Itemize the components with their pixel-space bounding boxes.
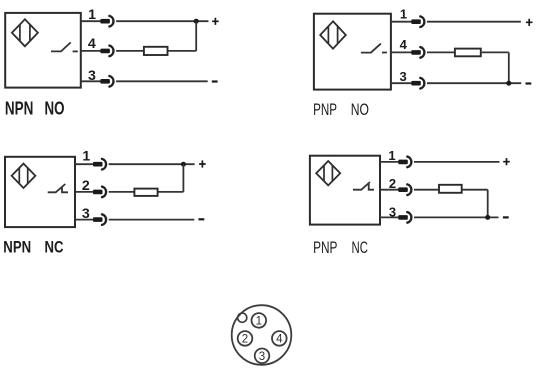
wire pin 4 lead (PNP NO) <box>391 51 412 53</box>
wire node up to + rail (NPN NO) <box>195 21 197 51</box>
svg-text:PNP: PNP <box>313 100 337 119</box>
NC switch contact (PNP NC) <box>353 182 374 190</box>
connector contact pin 3 (PNP NO) <box>411 81 421 86</box>
NC switch contact (NPN NC) <box>48 184 68 192</box>
wire pin 2 lead (PNP NC) <box>380 189 399 191</box>
svg-text:1: 1 <box>82 148 90 164</box>
+ terminal (PNP NC) <box>503 158 510 165</box>
+ terminal (PNP NO) <box>526 19 533 26</box>
svg-text:3: 3 <box>259 351 265 363</box>
connector contact pin 4 (PNP NO) <box>411 50 421 55</box>
wire pin 3 lead (PNP NO) <box>391 82 412 84</box>
connector contact pin 2 (PNP NC) <box>398 187 408 192</box>
wire pin 2 to load (NPN NC) <box>109 191 134 193</box>
- terminal (NPN NO) <box>212 80 218 82</box>
connector contact pin 1 (NPN NC) <box>93 162 103 167</box>
wire pin 2 to load (PNP NC) <box>414 189 438 191</box>
connector contact pin 1 (PNP NO) <box>411 19 421 24</box>
connector contact pin 3 (PNP NC) <box>398 215 408 220</box>
wire pin 3 to - (NPN NO) <box>116 80 208 82</box>
load resistor (NPN NC) <box>134 189 157 196</box>
- terminal (PNP NC) <box>503 216 509 218</box>
sensor box (NPN NO) <box>5 13 81 88</box>
+ terminal (NPN NC) <box>199 160 206 167</box>
wire load to corner (PNP NC) <box>463 189 488 191</box>
wire pin 1 to + (NPN NO) <box>116 20 208 22</box>
wire pin 4 to load (NPN NO) <box>116 50 143 52</box>
wire pin 1 to + (PNP NO) <box>427 21 521 23</box>
svg-text:2: 2 <box>242 334 248 346</box>
connector contact pin 3 (NPN NC) <box>93 217 103 222</box>
junction dot node + (NPN NC) <box>181 162 186 167</box>
proximity sensor symbol (PNP NC) <box>316 161 340 185</box>
svg-text:4: 4 <box>276 334 283 346</box>
proximity sensor symbol (PNP NO) <box>320 21 346 48</box>
junction dot node - (PNP NC) <box>485 215 490 220</box>
svg-text:3: 3 <box>399 69 406 84</box>
wire pin 3 to - (PNP NO) <box>427 82 521 84</box>
sensor box (NPN NC) <box>5 157 75 227</box>
connector contact pin 1 (PNP NC) <box>398 160 408 165</box>
wire corner down to - rail (PNP NC) <box>487 190 489 218</box>
NO switch contact (PNP NO) <box>361 44 381 53</box>
wire pin 3 to - (PNP NC) <box>414 216 499 218</box>
wire pin 3 lead (NPN NO) <box>81 80 101 82</box>
wire pin 3 lead (NPN NC) <box>75 219 94 221</box>
svg-text:1: 1 <box>400 7 407 22</box>
sensor box (PNP NC) <box>310 156 380 225</box>
wire pin 1 lead (PNP NO) <box>391 21 412 23</box>
wire pin 1 lead (PNP NC) <box>380 161 399 163</box>
connector contact pin 1 (NPN NO) <box>100 19 110 24</box>
wire pin 1 lead (NPN NC) <box>75 163 94 165</box>
wire pin 1 to + (PNP NC) <box>414 161 500 163</box>
connector pin 4 <box>272 331 287 346</box>
connector pin 1 <box>251 313 266 328</box>
connector contact pin 4 (NPN NO) <box>100 49 110 54</box>
wire pin 3 to - (NPN NC) <box>109 219 195 221</box>
wire corner down to - rail (PNP NO) <box>508 52 510 83</box>
NO switch contact (NPN NO) <box>51 42 71 51</box>
proximity sensor symbol (NPN NO) <box>12 19 38 46</box>
svg-text:1: 1 <box>388 148 395 163</box>
junction dot node - (PNP NO) <box>506 81 511 86</box>
svg-text:PNP: PNP <box>313 238 337 257</box>
svg-text:NPN: NPN <box>3 238 31 257</box>
- terminal (PNP NO) <box>526 82 532 84</box>
wire node up to + rail (NPN NC) <box>182 164 184 192</box>
wire pin 2 lead (NPN NC) <box>75 191 94 193</box>
load resistor (PNP NC) <box>439 185 462 193</box>
proximity sensor symbol (NPN NC) <box>12 164 36 188</box>
wire pin 1 to + (NPN NC) <box>109 163 195 165</box>
- terminal (NPN NC) <box>199 218 205 220</box>
svg-text:1: 1 <box>256 316 262 328</box>
load resistor (NPN NO) <box>144 47 168 55</box>
wire pin 1 lead (NPN NO) <box>81 20 101 22</box>
svg-text:NO: NO <box>351 100 369 119</box>
wire pin 4 lead (NPN NO) <box>81 50 101 52</box>
sensor box (PNP NO) <box>314 14 391 90</box>
svg-text:NO: NO <box>45 99 65 119</box>
svg-text:NC: NC <box>352 238 368 257</box>
connector contact pin 2 (NPN NC) <box>93 190 103 195</box>
wire pin 4 to load (PNP NO) <box>427 51 455 53</box>
svg-text:NC: NC <box>45 238 64 257</box>
load resistor (PNP NO) <box>455 49 481 57</box>
svg-text:4: 4 <box>400 37 408 52</box>
keying notch <box>238 313 247 322</box>
connector body circle <box>232 305 292 365</box>
svg-text:4: 4 <box>88 36 96 52</box>
connector contact pin 3 (NPN NO) <box>100 79 110 84</box>
junction dot node + (NPN NO) <box>194 19 199 24</box>
wire pin 3 lead (PNP NC) <box>380 216 399 218</box>
connector pin 2 <box>238 331 253 346</box>
wire load to node (NPN NC) <box>159 191 184 193</box>
+ terminal (NPN NO) <box>212 18 219 25</box>
svg-text:2: 2 <box>389 176 396 191</box>
wire load to node (NPN NO) <box>169 50 197 52</box>
wire load to corner (PNP NO) <box>482 51 509 53</box>
connector pin 3 <box>255 349 270 364</box>
svg-text:NPN: NPN <box>5 99 34 119</box>
